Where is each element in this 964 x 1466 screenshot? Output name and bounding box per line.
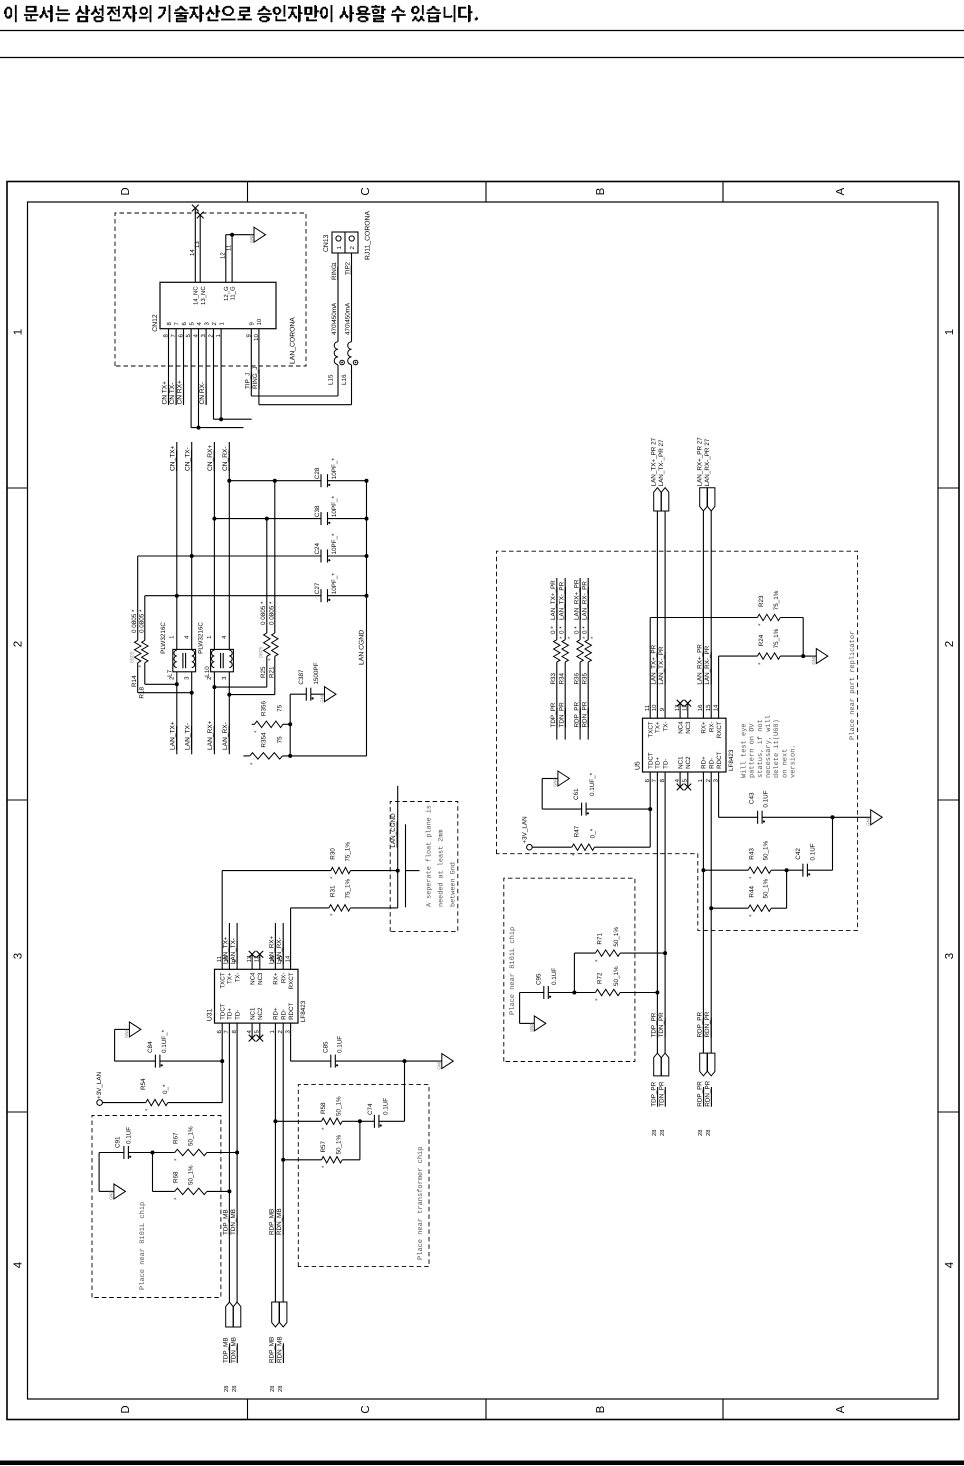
svg-text:TDP_PR: TDP_PR [651, 1081, 658, 1106]
net label TDN_MB mid [230, 1209, 237, 1235]
svg-text:0.1UF: 0.1UF [551, 968, 558, 985]
net label CN TX+ [162, 381, 169, 405]
dashed box place near port replicator [497, 551, 858, 930]
svg-text:TDN_MB: TDN_MB [230, 1209, 237, 1235]
svg-text:28: 28 [223, 1386, 230, 1392]
wire U31 pin3 RDCT node [290, 1023, 292, 1061]
svg-text:0 0805 *: 0 0805 * [268, 601, 275, 625]
junction R58 C74 node [358, 1119, 362, 1123]
svg-text:R21: R21 [268, 666, 275, 678]
off-page connector TDN_PR [658, 1053, 669, 1136]
svg-text:R67: R67 [173, 1132, 180, 1144]
net label CN RX- [199, 382, 206, 405]
wire LAN_CGND bus [366, 481, 368, 756]
svg-text:10PF_*: 10PF_* [331, 496, 338, 518]
off-page connector LAN_TX+_PR [650, 437, 661, 511]
wire R44 to C42 node [786, 870, 788, 908]
svg-text:4: 4 [13, 1261, 25, 1268]
capacitor C42 0.1UF [787, 817, 833, 876]
svg-text:75_1%: 75_1% [773, 628, 780, 648]
resistor R58 50_1% [275, 1096, 360, 1130]
note text place near transformer chip [416, 1147, 425, 1260]
resistor R47 0 [532, 809, 650, 856]
svg-text:TXCT: TXCT [648, 721, 655, 737]
off-page connector RDN_MB [276, 1302, 287, 1392]
capacitor C61 0.1UF [542, 772, 650, 815]
svg-text:LF8423: LF8423 [728, 749, 735, 771]
svg-text:GND: GND [553, 777, 558, 787]
svg-text:LAN CGND: LAN CGND [359, 630, 366, 665]
wire LAN_RX-_PR to U5 pin15 [710, 511, 712, 718]
wire LAN_TX+_PR to U5 pin10 [656, 511, 658, 718]
junction TDCT node [220, 1059, 224, 1063]
ground GND6 at R24 [811, 649, 828, 665]
svg-text:R25: R25 [260, 666, 267, 678]
wire CN12 pin11 to GND [226, 235, 233, 283]
svg-text:LAN_TX-_PR: LAN_TX-_PR [658, 646, 665, 685]
wire C84 gnd elbow [115, 1029, 130, 1061]
svg-text:NC1: NC1 [249, 1007, 256, 1020]
net label LAN_RX+ [207, 720, 214, 750]
wire C95 gnd drop [520, 1022, 535, 1024]
label 0805 gray TX [130, 651, 136, 663]
svg-text:R31: R31 [330, 885, 337, 897]
svg-text:LF8423: LF8423 [300, 1000, 307, 1022]
svg-text:GND: GND [109, 1190, 114, 1200]
svg-text:12_G: 12_G [223, 286, 230, 301]
svg-text:C85: C85 [323, 1041, 330, 1053]
junction C43 node [831, 815, 835, 819]
wire CN12 pins 2+1 RX tap [214, 329, 252, 420]
wire LAN_RX+ stub [213, 672, 215, 755]
note text place near 8101L chip 2 [508, 927, 517, 1015]
svg-text:0805: 0805 [130, 651, 136, 663]
svg-text:RDN_PR: RDN_PR [704, 1080, 711, 1106]
svg-text:CN_RX-: CN_RX- [222, 446, 229, 471]
svg-text:75_1%: 75_1% [345, 842, 352, 862]
svg-text:LAN_RX+: LAN_RX+ [268, 936, 275, 964]
note text will test eye pattern [740, 715, 798, 778]
svg-text:75_1%: 75_1% [773, 590, 780, 610]
svg-text:LAN_RX-_PR 27: LAN_RX-_PR 27 [704, 438, 711, 486]
svg-text:Place near 8101L chip: Place near 8101L chip [508, 927, 517, 1015]
svg-text:0 *: 0 * [550, 626, 557, 634]
svg-text:LAN_TX-_PR: LAN_TX-_PR [558, 581, 565, 620]
capacitor C387 1500PF [290, 662, 324, 700]
wire net CN_TX- [191, 442, 193, 649]
svg-text:RDP_MB: RDP_MB [269, 1337, 276, 1363]
label LAN CGND [359, 630, 366, 665]
svg-text:GND: GND [866, 816, 871, 826]
svg-text:2: 2 [13, 641, 25, 647]
svg-text:RJ11_CORONA: RJ11_CORONA [365, 211, 372, 260]
svg-text:11_G: 11_G [230, 286, 237, 301]
transformer chip U5 LF8423 [634, 700, 735, 791]
svg-text:RDP_MB: RDP_MB [268, 1209, 275, 1235]
svg-text:Place near port replicator: Place near port replicator [848, 631, 857, 740]
transformer L10 PLW3216C [198, 622, 234, 680]
junction R354 bus [288, 754, 292, 758]
svg-text:RDP_PR: RDP_PR [573, 702, 580, 728]
svg-text:C: C [360, 1405, 372, 1413]
net label LAN_TX+ [170, 721, 177, 750]
wire R57 to C74 node [359, 1121, 361, 1160]
wire LAN_TX+ stub [176, 672, 178, 755]
svg-text:LAN_RX+: LAN_RX+ [207, 720, 214, 750]
resistor R35 0 [581, 578, 597, 740]
net label RDN_PR mid [704, 1011, 711, 1037]
svg-text:R354: R354 [261, 732, 268, 748]
svg-text:RDN_MB: RDN_MB [276, 1208, 283, 1235]
svg-text:RDN_PR: RDN_PR [704, 1011, 711, 1037]
svg-text:LAN_CGND: LAN_CGND [390, 813, 397, 848]
svg-text:GND: GND [529, 1022, 534, 1032]
svg-text:50_1%: 50_1% [613, 927, 620, 947]
net label CN TX- [169, 383, 176, 405]
resistor R34 0 [558, 578, 574, 740]
label RJ11_CORONA [365, 211, 372, 260]
wire LAN_RX+_PR to U5 pin16 [702, 511, 704, 718]
wire R356 to C387 node [289, 694, 291, 756]
junction R71 TDN_PR [663, 951, 667, 955]
svg-text:R14: R14 [131, 675, 138, 687]
svg-text:LAN_RX+_PR: LAN_RX+_PR [573, 579, 580, 620]
svg-text:TDN_PR: TDN_PR [558, 702, 565, 728]
junction R25 LAN_RX+ [212, 685, 216, 689]
ground GND8 at C43 [866, 810, 883, 826]
capacitor C27 10PF [145, 573, 369, 603]
svg-text:50_1%: 50_1% [188, 1165, 195, 1185]
svg-text:28: 28 [277, 1386, 284, 1392]
svg-text:50_1%: 50_1% [613, 966, 620, 986]
svg-text:LAN_TX-_PR 27: LAN_TX-_PR 27 [658, 439, 665, 486]
junction C27 CN_TX+ [175, 594, 179, 598]
connector CN13 RJ11_CORONA [323, 232, 358, 265]
svg-text:TDP_MB: TDP_MB [222, 1209, 229, 1235]
svg-text:Place near 8101L chip: Place near 8101L chip [138, 1202, 147, 1290]
svg-text:Place near transformer chip: Place near transformer chip [416, 1147, 425, 1260]
connector CN12 [152, 282, 276, 341]
header rule 1 [0, 30, 964, 32]
junction R25 C38 [265, 517, 269, 521]
ground GND1 at CN12 [249, 227, 266, 243]
svg-text:CN RX-: CN RX- [199, 382, 206, 405]
svg-text:RDN_PR: RDN_PR [581, 701, 588, 727]
svg-text:TDCT: TDCT [648, 752, 655, 769]
svg-text:RING: RING [331, 264, 338, 280]
svg-text:TX-: TX- [662, 721, 669, 731]
svg-text:NC4: NC4 [249, 972, 256, 985]
net label TIP [344, 265, 351, 275]
svg-text:status, if not: status, if not [756, 719, 765, 778]
wire TDN_MB from U31 pin8 [236, 1023, 238, 1302]
no-connect X pin14 [192, 205, 199, 212]
svg-text:12: 12 [219, 252, 226, 259]
off-page connector RDP_PR [697, 1053, 708, 1136]
svg-text:28: 28 [651, 1130, 658, 1136]
junction pin4 tap [197, 426, 201, 430]
svg-text:0 0805 *: 0 0805 * [260, 601, 267, 625]
off-page connector LAN_RX-_PR [704, 438, 715, 511]
svg-text:L10: L10 [204, 666, 211, 677]
svg-text:LAN_TX+_PR: LAN_TX+_PR [550, 580, 557, 620]
svg-text:C74: C74 [367, 1103, 374, 1115]
wire CN12 pin7 CN TX- [175, 329, 177, 405]
svg-text:RD-: RD- [709, 758, 716, 769]
net label LAN_TX+ at U31 [222, 936, 229, 964]
svg-text:R24: R24 [758, 634, 765, 646]
power +3V_LAN at R47 [522, 816, 533, 850]
svg-text:TDCT: TDCT [220, 1003, 227, 1020]
off-page connector TDN_MB [230, 1302, 241, 1392]
net label LAN_RX-_PR at U5 [704, 645, 711, 684]
svg-text:2: 2 [944, 641, 956, 647]
wire RDP_MB from U31 pin1 [274, 1023, 276, 1302]
svg-text:LAN_TX+: LAN_TX+ [222, 936, 229, 964]
junction C91 R67 [151, 1151, 155, 1155]
wire C61 gnd elbow [542, 779, 558, 810]
wire RDN_PR from U5 pin2 [710, 772, 712, 1053]
svg-text:RXCT: RXCT [716, 721, 723, 738]
svg-text:D: D [120, 187, 132, 195]
resistor R30 75_1% [222, 842, 398, 879]
svg-text:PLW3216C: PLW3216C [160, 622, 167, 654]
svg-text:U31: U31 [206, 1008, 213, 1021]
resistor R21 0 0805 [229, 481, 278, 695]
wire U5 pin6 TDCT node [649, 772, 651, 809]
svg-text:TDP_MB: TDP_MB [223, 1337, 230, 1363]
svg-text:470\450mA: 470\450mA [344, 302, 351, 335]
junction R21 C28 [273, 479, 277, 483]
svg-text:LAN_RX-_PR: LAN_RX-_PR [704, 645, 711, 684]
svg-text:R43: R43 [749, 848, 756, 860]
svg-text:R44: R44 [749, 886, 756, 898]
svg-text:NC3: NC3 [257, 972, 264, 985]
svg-text:14: 14 [189, 249, 196, 256]
svg-text:TD-: TD- [234, 1010, 241, 1020]
wire net CN_TX+ [176, 442, 178, 649]
ground GND2 at C387 [319, 687, 336, 703]
dashed box place near transformer chip [298, 1085, 429, 1267]
svg-text:14_NC: 14_NC [193, 286, 200, 305]
svg-text:TXCT: TXCT [220, 972, 227, 988]
wire U31 pin14 RXCT to R31 [290, 908, 292, 969]
svg-text:28: 28 [231, 1386, 238, 1392]
junction R67 TDN_MB [235, 1151, 239, 1155]
svg-text:C95: C95 [535, 973, 542, 985]
svg-text:0.1UF: 0.1UF [763, 790, 770, 807]
svg-text:PLW3216C: PLW3216C [198, 622, 205, 654]
net label CN_RX+ [207, 445, 214, 471]
svg-text:NC1: NC1 [677, 756, 684, 769]
resistor R356 75 [252, 701, 291, 733]
svg-text:GND: GND [437, 1060, 442, 1070]
svg-text:NC4: NC4 [677, 721, 684, 734]
svg-text:NC3: NC3 [685, 721, 692, 734]
wire C91 gnd drop [99, 1190, 114, 1192]
off-page connector LAN_RX+_PR [696, 437, 707, 511]
svg-text:10: 10 [256, 318, 263, 325]
svg-text:delete it(U60): delete it(U60) [772, 719, 781, 778]
net label LAN_RX- at U31 [276, 937, 283, 964]
wire U31 pin10 LAN_TX+ [228, 923, 230, 969]
svg-text:C43: C43 [749, 792, 756, 804]
off-page connector TDP_PR [651, 1053, 662, 1136]
resistor R33 0 [550, 578, 566, 740]
svg-text:RX+: RX+ [701, 721, 708, 734]
svg-text:R18: R18 [139, 687, 146, 699]
svg-text:R71: R71 [596, 933, 603, 945]
svg-text:LAN_CORONA: LAN_CORONA [290, 317, 297, 364]
svg-text:NC2: NC2 [685, 756, 692, 769]
svg-text:C387: C387 [298, 669, 305, 685]
svg-text:A: A [835, 187, 847, 195]
off-page connector RDP_MB [269, 1302, 280, 1392]
note text float plane [426, 805, 458, 907]
resistor R25 0 0805 [214, 519, 270, 688]
svg-text:RX+: RX+ [273, 972, 280, 985]
svg-text:0 *: 0 * [573, 626, 580, 634]
junction R58 RD+ [273, 1119, 277, 1123]
wire CN12 pin13 NC [194, 215, 201, 282]
resistor R14 0 0805 [131, 556, 192, 693]
svg-text:B: B [595, 187, 607, 195]
wire RDCT node to C74 [404, 1061, 406, 1121]
svg-text:3: 3 [944, 953, 956, 959]
svg-text:CN TX-: CN TX- [169, 383, 176, 405]
svg-text:NC2: NC2 [257, 1007, 264, 1020]
wire U31 pin9 LAN_TX- [236, 923, 238, 969]
net label LAN_TX-_PR at U5 [658, 646, 665, 685]
svg-text:L16: L16 [341, 374, 348, 385]
wire net LAN_CGND 2 [397, 786, 399, 908]
wire CN12 pin9 TIP_J [251, 329, 338, 396]
resistor R31 75_1% [291, 878, 398, 916]
svg-text:C84: C84 [147, 1041, 154, 1053]
resistor R54 0 [102, 1061, 222, 1111]
svg-text:TX-: TX- [234, 973, 241, 983]
svg-text:CN_TX+: CN_TX+ [170, 445, 177, 471]
junction R57 RD- [281, 1158, 285, 1162]
note text place near port replicator [848, 631, 857, 740]
svg-text:LAN_RX+_PR: LAN_RX+_PR [696, 644, 703, 685]
dashed box place near 8101L chip 2 [504, 878, 635, 1061]
svg-text:C: C [360, 187, 372, 195]
resistor R57 50_1% [283, 1134, 360, 1168]
svg-text:10PF_*: 10PF_* [331, 573, 338, 595]
wire LAN_TX-_PR to U5 pin9 [664, 511, 666, 718]
svg-text:R58: R58 [320, 1102, 327, 1114]
resistor R71 50_1% [574, 927, 665, 962]
wire U5 pin3 RDCT node [718, 772, 720, 817]
dashed box place near 8101L chip [92, 1116, 221, 1298]
junction C38 CN_RX+ [212, 517, 216, 521]
svg-text:R33: R33 [550, 672, 557, 684]
wire C91 junction to R68 [152, 1153, 154, 1192]
wire LAN_TX- stub [191, 672, 193, 755]
capacitor C95 0.1UF [520, 968, 575, 1024]
wire TDP_PR from U5 pin7 [656, 772, 658, 1053]
label LAN_CORONA [290, 317, 297, 364]
resistor R23 75_1% [650, 590, 803, 626]
svg-text:RDP_PR: RDP_PR [696, 1012, 703, 1038]
svg-text:C38: C38 [314, 505, 321, 517]
junction pin1 tap [219, 417, 223, 421]
junction R43 RD+ [701, 868, 705, 872]
svg-text:28: 28 [659, 1130, 666, 1136]
ground GND7 at C61 [553, 771, 570, 787]
wire TDP_MB from U31 pin7 [228, 1023, 230, 1302]
svg-text:1500PF: 1500PF [313, 662, 320, 684]
svg-text:11: 11 [226, 244, 233, 251]
junction R72 TDP_PR [655, 991, 659, 995]
svg-text:0.1UF: 0.1UF [126, 1127, 133, 1144]
net label TDP_MB mid [222, 1209, 229, 1235]
svg-text:version.: version. [788, 744, 797, 778]
inductor L15 470\450mA [328, 302, 345, 385]
capacitor C74 0.1UF [360, 1098, 405, 1128]
resistor R44 50_1% [711, 878, 786, 917]
junction C28 CN_RX- [227, 479, 231, 483]
wire L16 to CN13 pin2 [351, 253, 353, 342]
svg-text:470\450mA: 470\450mA [331, 302, 338, 335]
capacitor C43 0.1UF [719, 790, 833, 824]
net label TDP_PR mid [650, 1012, 657, 1037]
svg-text:A: A [835, 1405, 847, 1413]
svg-text:Will test eye: Will test eye [740, 723, 749, 778]
svg-text:GND: GND [319, 693, 324, 703]
svg-text:TX+: TX+ [227, 972, 234, 984]
svg-text:50_1%: 50_1% [336, 1134, 343, 1154]
wire net CN_RX- [228, 442, 230, 649]
svg-text:R68: R68 [173, 1171, 180, 1183]
svg-text:L15: L15 [328, 374, 335, 385]
junction R43 C42 node [785, 868, 789, 872]
net label RDN_MB mid [276, 1208, 283, 1235]
wire U31 pin16 LAN_RX+ [274, 923, 276, 969]
svg-text:TD+: TD+ [227, 1008, 234, 1020]
svg-text:0.1UF: 0.1UF [383, 1098, 390, 1115]
wire U31 pin11 TXCT to R30 [221, 871, 223, 970]
svg-text:C24: C24 [314, 542, 321, 554]
svg-text:TD+: TD+ [655, 757, 662, 769]
svg-text:CN13: CN13 [323, 234, 330, 252]
svg-text:50_1%: 50_1% [188, 1126, 195, 1146]
svg-text:R72: R72 [596, 972, 603, 984]
svg-text:0 *: 0 * [558, 626, 565, 634]
resistor R72 50_1% [574, 966, 657, 1001]
junction U5 TDCT node [648, 807, 652, 811]
svg-text:RDP_PR: RDP_PR [697, 1081, 704, 1107]
svg-text:50_1%: 50_1% [336, 1096, 343, 1116]
svg-text:B: B [595, 1405, 607, 1413]
svg-text:TDP_PR: TDP_PR [650, 1012, 657, 1037]
net label TDN_PR mid [658, 1012, 665, 1038]
svg-text:D: D [120, 1405, 132, 1413]
net label LAN_RX+ at U31 [268, 936, 275, 964]
svg-text:+3V_LAN: +3V_LAN [96, 1071, 103, 1099]
wire CN12 pin14 NC [189, 208, 196, 282]
svg-text:TDP_PR: TDP_PR [550, 702, 557, 727]
svg-text:R30: R30 [330, 848, 337, 860]
svg-text:between Gnd: between Gnd [450, 862, 458, 907]
net label RING_J [252, 367, 259, 389]
junction R68 TDP_MB [227, 1189, 231, 1193]
svg-text:0 0805 *: 0 0805 * [139, 609, 146, 633]
svg-text:LAN_RX-: LAN_RX- [222, 722, 229, 750]
wire GND drop CN12 [226, 234, 254, 236]
svg-text:RD-: RD- [281, 1009, 288, 1020]
